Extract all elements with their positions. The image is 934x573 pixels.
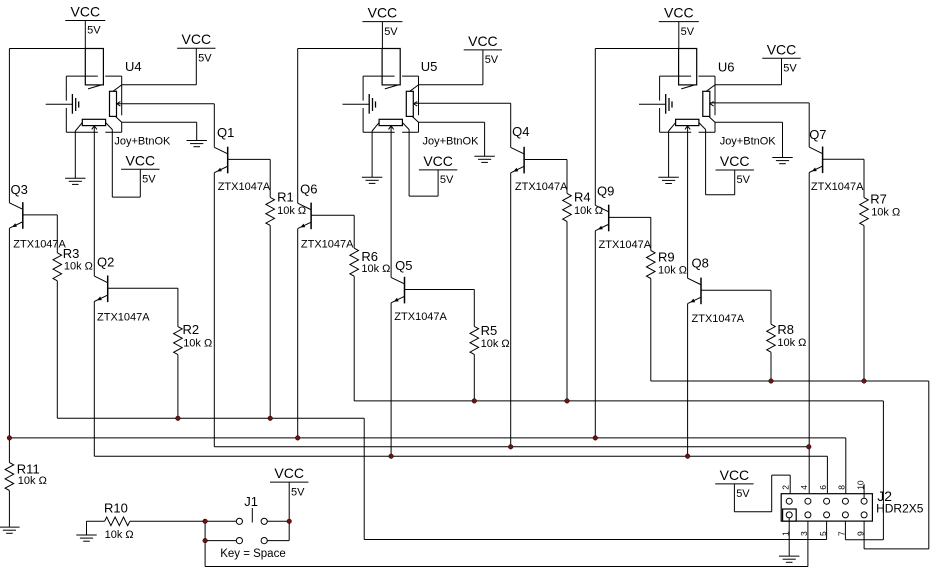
svg-text:VCC: VCC bbox=[664, 5, 694, 21]
svg-text:10k Ω: 10k Ω bbox=[277, 205, 306, 217]
svg-text:R4: R4 bbox=[574, 190, 591, 205]
svg-text:Q4: Q4 bbox=[512, 124, 529, 139]
svg-text:ZTX1047A: ZTX1047A bbox=[218, 181, 271, 193]
svg-text:7: 7 bbox=[837, 531, 847, 536]
svg-text:VCC: VCC bbox=[423, 153, 453, 169]
svg-text:U5: U5 bbox=[421, 59, 438, 74]
svg-text:3: 3 bbox=[799, 531, 809, 536]
svg-text:R8: R8 bbox=[777, 322, 794, 337]
svg-text:5V: 5V bbox=[291, 486, 305, 498]
svg-text:Q5: Q5 bbox=[395, 258, 412, 273]
svg-text:10k Ω: 10k Ω bbox=[777, 337, 806, 349]
svg-text:ZTX1047A: ZTX1047A bbox=[301, 238, 354, 250]
svg-text:VCC: VCC bbox=[274, 465, 304, 481]
svg-text:R7: R7 bbox=[870, 192, 887, 207]
svg-text:Joy+BtnOK: Joy+BtnOK bbox=[720, 135, 777, 147]
svg-text:5V: 5V bbox=[737, 174, 751, 186]
svg-text:U4: U4 bbox=[125, 59, 142, 74]
svg-text:5: 5 bbox=[818, 531, 828, 536]
svg-text:ZTX1047A: ZTX1047A bbox=[692, 313, 745, 325]
svg-text:Joy+BtnOK: Joy+BtnOK bbox=[114, 135, 171, 147]
svg-text:9: 9 bbox=[855, 531, 865, 536]
svg-text:U6: U6 bbox=[718, 59, 735, 74]
svg-text:VCC: VCC bbox=[720, 467, 750, 483]
svg-text:5V: 5V bbox=[485, 54, 499, 66]
svg-text:10k Ω: 10k Ω bbox=[183, 338, 212, 350]
svg-text:5V: 5V bbox=[142, 174, 156, 186]
svg-text:10k Ω: 10k Ω bbox=[64, 261, 93, 273]
svg-text:Q7: Q7 bbox=[809, 127, 826, 142]
svg-text:R10: R10 bbox=[104, 501, 128, 516]
svg-text:Q2: Q2 bbox=[97, 254, 114, 269]
svg-text:5V: 5V bbox=[440, 174, 454, 186]
svg-text:1: 1 bbox=[780, 531, 790, 536]
svg-text:4: 4 bbox=[799, 485, 809, 490]
svg-text:ZTX1047A: ZTX1047A bbox=[515, 181, 568, 193]
svg-text:2: 2 bbox=[780, 485, 790, 490]
svg-text:Joy+BtnOK: Joy+BtnOK bbox=[423, 135, 480, 147]
svg-text:Q3: Q3 bbox=[11, 182, 28, 197]
svg-text:VCC: VCC bbox=[720, 153, 750, 169]
svg-text:VCC: VCC bbox=[368, 5, 398, 21]
svg-text:10: 10 bbox=[855, 480, 865, 490]
svg-text:10k Ω: 10k Ω bbox=[481, 338, 510, 350]
svg-text:ZTX1047A: ZTX1047A bbox=[599, 239, 652, 251]
svg-text:R6: R6 bbox=[361, 249, 378, 264]
svg-text:10k Ω: 10k Ω bbox=[361, 263, 390, 275]
svg-text:HDR2X5: HDR2X5 bbox=[876, 501, 924, 515]
svg-text:VCC: VCC bbox=[71, 4, 101, 20]
svg-text:5V: 5V bbox=[384, 26, 398, 38]
svg-text:6: 6 bbox=[818, 485, 828, 490]
svg-text:Q9: Q9 bbox=[597, 184, 614, 199]
svg-text:5V: 5V bbox=[783, 63, 797, 75]
svg-text:VCC: VCC bbox=[126, 152, 156, 168]
svg-text:VCC: VCC bbox=[182, 31, 212, 47]
svg-text:R9: R9 bbox=[658, 250, 675, 265]
svg-text:8: 8 bbox=[837, 485, 847, 490]
svg-text:Key = Space: Key = Space bbox=[220, 548, 286, 560]
svg-text:J1: J1 bbox=[244, 494, 258, 509]
svg-text:ZTX1047A: ZTX1047A bbox=[97, 311, 150, 323]
svg-text:ZTX1047A: ZTX1047A bbox=[394, 311, 447, 323]
svg-text:Q1: Q1 bbox=[217, 125, 234, 140]
svg-text:R3: R3 bbox=[63, 246, 80, 261]
svg-text:5V: 5V bbox=[198, 52, 212, 64]
svg-text:R2: R2 bbox=[183, 322, 200, 337]
svg-text:10k Ω: 10k Ω bbox=[18, 475, 47, 487]
svg-text:5V: 5V bbox=[87, 25, 101, 37]
svg-text:ZTX1047A: ZTX1047A bbox=[811, 181, 864, 193]
svg-text:10k Ω: 10k Ω bbox=[105, 529, 134, 541]
svg-text:R5: R5 bbox=[481, 323, 498, 338]
svg-text:R1: R1 bbox=[277, 190, 294, 205]
svg-text:Q8: Q8 bbox=[692, 256, 709, 271]
svg-text:5V: 5V bbox=[736, 488, 750, 500]
svg-text:10k Ω: 10k Ω bbox=[871, 207, 900, 219]
svg-text:5V: 5V bbox=[681, 26, 695, 38]
svg-text:10k Ω: 10k Ω bbox=[658, 265, 687, 277]
svg-text:ZTX1047A: ZTX1047A bbox=[13, 239, 66, 251]
svg-text:VCC: VCC bbox=[767, 41, 797, 57]
svg-text:Q6: Q6 bbox=[300, 182, 317, 197]
svg-text:VCC: VCC bbox=[468, 33, 498, 49]
